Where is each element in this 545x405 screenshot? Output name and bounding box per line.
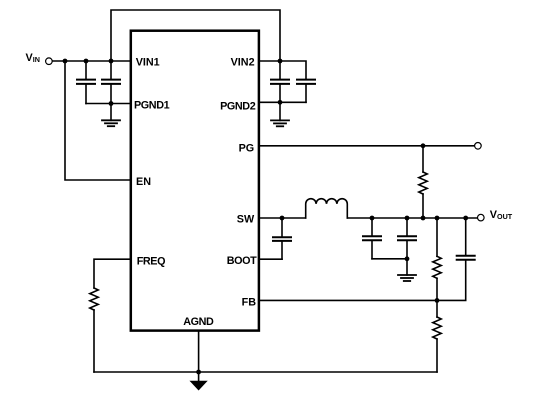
svg-text:PGND1: PGND1 — [134, 99, 170, 111]
node PG / R1 top — [421, 143, 426, 148]
node VOUT / R1 bottom — [421, 216, 426, 221]
capacitor C4 (input cap 4) — [297, 80, 315, 103]
svg-text:FB: FB — [242, 296, 257, 308]
svg-text:BOOT: BOOT — [227, 255, 257, 267]
node SW / C5 — [280, 216, 285, 221]
wire PGND2 — [259, 101, 306, 103]
node C2 / jumper on VIN bus — [109, 59, 114, 64]
terminal VOUT — [478, 214, 485, 221]
svg-text:VIN2: VIN2 — [231, 56, 255, 68]
svg-text:PGND2: PGND2 — [220, 101, 256, 113]
wire PG line — [259, 145, 475, 147]
wire EN from VIN bus — [65, 61, 131, 180]
wire VIN input to VIN1 pin — [52, 60, 131, 62]
node C1 top — [84, 59, 89, 64]
capacitor C5 (bootstrap) — [273, 218, 291, 259]
wire top jumper VIN1 bus to VIN2 — [111, 10, 280, 61]
inductor L1 — [306, 199, 348, 218]
resistor R1 (PG pull-up) — [419, 146, 427, 218]
svg-text:VIN: VIN — [26, 52, 40, 64]
node output caps common — [405, 256, 410, 261]
node C2 bottom on PGND1 — [109, 101, 114, 106]
resistor R4 (FREQ set) — [90, 288, 98, 372]
wire BOOT pin — [259, 258, 282, 260]
wire AGND pin stem — [198, 332, 200, 382]
wire FB line — [259, 299, 466, 301]
wire output caps common — [372, 258, 407, 260]
capacitor C7 (output cap 2) — [398, 218, 416, 275]
svg-text:VOUT: VOUT — [490, 209, 513, 221]
ground G2 (under C3) — [271, 120, 289, 126]
wire FREQ pin to R4 — [94, 259, 131, 288]
wire VIN2 pin to C4 — [259, 61, 306, 79]
terminal PG — [475, 143, 482, 150]
ground G1 (under C2) — [102, 120, 120, 126]
svg-text:AGND: AGND — [183, 316, 214, 328]
node VOUT / C7 — [405, 216, 410, 221]
svg-text:VIN1: VIN1 — [136, 57, 160, 69]
wire bottom AGND rail — [94, 371, 437, 373]
node AGND rail — [196, 370, 201, 375]
ground AGND (filled arrow) — [191, 381, 207, 390]
terminal VIN — [46, 58, 53, 65]
wire PGND1 — [86, 103, 131, 105]
svg-text:FREQ: FREQ — [137, 255, 165, 267]
node VIN2 / jumper — [278, 59, 283, 64]
capacitor C6 (output cap 1) — [363, 218, 381, 259]
node EN tap on VIN bus — [63, 59, 68, 64]
node VOUT / C6 — [370, 216, 375, 221]
node VOUT / C8 top — [463, 216, 468, 221]
wire SW pin to inductor — [259, 217, 306, 219]
node C3 bottom on PGND2 — [278, 100, 283, 105]
node junction dots — [63, 59, 469, 375]
ground G3 (under output caps) — [398, 275, 416, 281]
capacitor C1 (input cap 1) — [77, 61, 95, 104]
node FB divider — [435, 298, 440, 303]
svg-text:PG: PG — [239, 142, 255, 154]
resistor R3 (feedback bottom) — [433, 300, 441, 372]
op-amp U1 (regulator IC body) — [131, 31, 259, 331]
capacitor C3 (input cap 3) — [271, 61, 289, 120]
svg-text:SW: SW — [237, 213, 255, 225]
wire VOUT line — [347, 217, 477, 219]
capacitor C2 (input cap 2) — [102, 61, 120, 120]
capacitor C8 (feed-forward) — [457, 218, 475, 300]
resistor R2 (feedback top) — [433, 218, 441, 300]
svg-text:EN: EN — [136, 176, 151, 188]
node VOUT / R2 top — [435, 216, 440, 221]
